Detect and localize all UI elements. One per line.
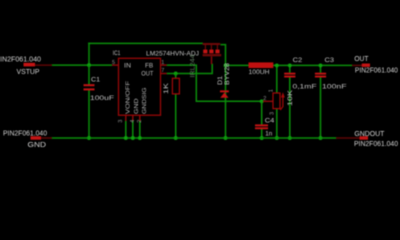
svg-text:BYV28: BYV28 (225, 62, 231, 85)
trimmer R 10K (273, 92, 285, 110)
junction pin2 ground (138, 136, 142, 140)
svg-text:5: 5 (112, 60, 115, 66)
terminal pad VSTUP input (35, 64, 52, 66)
svg-text:IC1: IC1 (113, 50, 121, 57)
terminal pad GND left (41, 137, 52, 139)
wire C4 bottom (261, 129, 263, 138)
svg-text:C3: C3 (325, 57, 335, 64)
svg-text:100uF: 100uF (90, 95, 114, 102)
wire IC pin4 gnd (132, 120, 134, 138)
pin stub IN pin 5 (112, 64, 119, 66)
svg-text:OUT: OUT (354, 56, 369, 63)
pin stub OUT pin 7 (161, 73, 167, 75)
wire R1 bottom (175, 94, 177, 138)
junction C3 ground (319, 136, 323, 140)
svg-text:GND: GND (134, 99, 140, 115)
capacitor C3 (315, 73, 326, 78)
svg-text:3: 3 (118, 120, 124, 123)
wire R1 top (175, 74, 177, 79)
junction switch node (224, 63, 228, 67)
op-amp IC1 box LM2574HVN-ADJ (119, 58, 161, 115)
junction pin3 ground (124, 136, 128, 140)
junction C3 out rail (319, 63, 323, 67)
junction C2 out rail (288, 63, 292, 67)
wire trimmer top (276, 65, 278, 93)
bypass component pads (203, 50, 207, 54)
svg-text:1: 1 (268, 89, 274, 92)
wire IC pin2 gnd (139, 120, 141, 138)
junction C2 ground (288, 136, 292, 140)
junction trimmer ground (275, 136, 279, 140)
svg-text:1K: 1K (163, 82, 170, 94)
svg-text:IN: IN (124, 62, 131, 69)
wire bypass top riser (88, 43, 90, 66)
wire C1 top (88, 65, 90, 84)
svg-text:FB: FB (145, 62, 153, 69)
svg-text:1n: 1n (265, 131, 272, 138)
svg-text:PIN2F061.040: PIN2F061.040 (354, 141, 398, 148)
junction trimmer out rail (275, 63, 279, 67)
svg-text:IRL244: IRL244 (191, 54, 197, 78)
pin stub trimmer wiper pin 2 (263, 100, 273, 102)
svg-text:100UH: 100UH (249, 69, 270, 76)
junction C1 ground (87, 136, 91, 140)
wire OUT pin net (167, 64, 213, 74)
capacitor C4 (255, 124, 268, 129)
wire diode branch (225, 65, 227, 138)
svg-text:C4: C4 (265, 118, 275, 125)
wire bypass top rail (88, 42, 203, 44)
svg-text:10K: 10K (287, 89, 294, 106)
svg-text:C2: C2 (293, 57, 303, 64)
svg-text:OUT: OUT (141, 71, 153, 78)
wire C3 branch (320, 65, 322, 72)
inductor L 100UH (249, 62, 274, 68)
svg-text:2: 2 (263, 96, 266, 102)
wire input rail VSTUP (51, 64, 112, 66)
junction OUT pin R divider (174, 72, 178, 76)
wire C1 bottom (88, 90, 90, 138)
bypass component bottom bar (203, 54, 222, 56)
svg-text:GNDSIG: GNDSIG (142, 87, 148, 114)
bypass component (3-pad part) top bar (203, 43, 221, 45)
terminal pad OUT right (352, 64, 362, 66)
svg-text:IN2F061.040: IN2F061.040 (0, 57, 41, 64)
svg-text:VSTUP: VSTUP (17, 69, 40, 76)
pin stub FB pin 1 (161, 64, 167, 66)
svg-text:100nF: 100nF (322, 84, 347, 91)
bypass component pin ticks top (204, 45, 206, 50)
svg-text:1: 1 (161, 60, 164, 66)
svg-text:D1: D1 (218, 75, 224, 85)
diode D1 BYV28 (220, 90, 229, 97)
junction diode ground (224, 136, 228, 140)
svg-text:GND: GND (28, 142, 47, 149)
svg-text:PIN2F061.040: PIN2F061.040 (3, 131, 47, 138)
junction R1 ground (174, 136, 178, 140)
wire component right corner (221, 45, 226, 66)
svg-text:7: 7 (161, 68, 164, 74)
capacitor C1 (84, 84, 95, 90)
resistor R 1K (172, 78, 179, 94)
wire out rail left of inductor (226, 64, 250, 66)
wire IC pin3 gnd (125, 120, 127, 138)
svg-text:4: 4 (130, 120, 136, 123)
terminal pad GNDOUT right (336, 137, 360, 139)
wire C2 bottom (289, 77, 291, 138)
pin stub IC pin 4 (132, 115, 134, 121)
junction input C1 (87, 63, 91, 67)
svg-text:PIN2F061.040: PIN2F061.040 (355, 67, 398, 74)
wire C2 branch (289, 65, 291, 72)
pin stub bypass component bottom (211, 56, 213, 64)
svg-text:GNDOUT: GNDOUT (354, 131, 385, 138)
junction FB C4 (260, 99, 264, 103)
wire C4 top (261, 101, 263, 124)
svg-text:0,1mF: 0,1mF (293, 84, 317, 91)
capacitor C2 (284, 73, 295, 78)
svg-text:C1: C1 (91, 77, 100, 84)
pin stub IC pin 2 (139, 115, 141, 121)
junction pin4 ground (131, 136, 135, 140)
wire C3 bottom (320, 77, 322, 138)
wire ground rail (51, 137, 337, 139)
svg-text:2: 2 (137, 120, 143, 123)
svg-text:3: 3 (269, 112, 275, 115)
wire trimmer bottom (276, 109, 278, 138)
wire FB net (167, 65, 262, 101)
junction C4 ground (260, 136, 264, 140)
wire out rail right of inductor (273, 64, 353, 66)
svg-text:VON/OFF: VON/OFF (126, 80, 132, 114)
pin stub IC pin 3 (125, 115, 127, 121)
